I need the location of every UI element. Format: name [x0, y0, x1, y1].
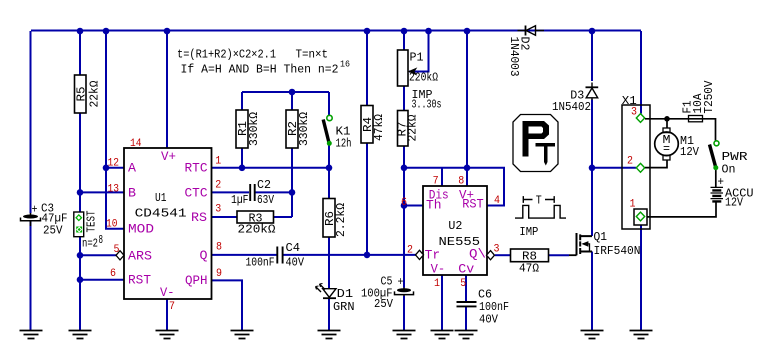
svg-text:=: =	[663, 142, 670, 156]
wire ARS branch	[80, 254, 117, 256]
wire C5 to ground	[403, 296, 405, 331]
switch K1	[323, 115, 332, 146]
node rail-wiper	[425, 28, 432, 35]
svg-text:12: 12	[108, 158, 120, 170]
svg-text:If A=H AND B=H Then n=2: If A=H AND B=H Then n=2	[181, 63, 339, 77]
svg-text:1N5402: 1N5402	[552, 100, 591, 114]
capacitor C4	[277, 247, 282, 264]
wire battery to X1 pin1	[647, 202, 716, 217]
wire RS row right of R3	[274, 216, 293, 218]
node rail-P1	[401, 28, 408, 35]
fuse F1	[689, 116, 703, 122]
svg-text:T=n×t: T=n×t	[296, 48, 329, 62]
svg-text:MOD: MOD	[128, 223, 154, 237]
wire rail to X1 pin3	[640, 31, 642, 114]
pin diamond Q-bar	[487, 251, 495, 260]
wire R4 bottom to Q row	[366, 143, 368, 255]
node ARS	[77, 252, 84, 259]
svg-text:22kΩ: 22kΩ	[406, 115, 420, 142]
wire C3 to ground	[30, 221, 32, 331]
ground Q1 source	[581, 331, 604, 339]
svg-text:2: 2	[407, 245, 413, 257]
svg-text:RST: RST	[462, 198, 484, 212]
svg-text:CTC: CTC	[185, 187, 208, 201]
wire QPH to ground	[212, 280, 243, 331]
svg-text:T250V: T250V	[702, 80, 716, 114]
wire R4 column top	[366, 31, 368, 106]
node rail-U1V+	[164, 28, 171, 35]
svg-text:12V: 12V	[725, 196, 744, 210]
node rail-R4	[364, 28, 371, 35]
svg-text:T: T	[536, 194, 542, 208]
svg-text:1N4003: 1N4003	[507, 37, 521, 77]
svg-text:1: 1	[215, 156, 221, 168]
wire K1 bottom lead	[328, 146, 330, 168]
node rail-A	[103, 28, 110, 35]
resistor R8	[511, 249, 549, 262]
wire R7 bottom to C5	[403, 146, 405, 288]
svg-text:8: 8	[458, 176, 464, 188]
node RST	[77, 276, 84, 283]
ground D1	[318, 331, 341, 339]
wire D3 column top	[591, 31, 593, 81]
svg-text:t=(R1+R2)×C2×2.1: t=(R1+R2)×C2×2.1	[177, 48, 276, 62]
svg-text:Cv: Cv	[458, 262, 475, 276]
svg-text:5: 5	[460, 278, 466, 290]
node R1R2K1 top	[289, 89, 296, 96]
ground U2 V-	[431, 331, 454, 339]
wire K1 top lead	[328, 92, 330, 115]
svg-text:7: 7	[169, 301, 175, 313]
svg-text:1µF: 1µF	[231, 193, 249, 207]
svg-text:C4: C4	[286, 241, 301, 255]
svg-text:n=2: n=2	[82, 237, 98, 251]
svg-text:RST: RST	[128, 274, 151, 288]
node rail-555V+	[464, 28, 471, 35]
node trigger	[364, 252, 371, 259]
node rail-D3	[589, 28, 596, 35]
svg-text:Th: Th	[426, 198, 442, 212]
P1 wiper arrow	[409, 69, 416, 75]
wire U1 pin14 V+ column	[166, 31, 168, 148]
wire Dis/V+/RST row	[404, 168, 504, 206]
resistor R5	[75, 75, 87, 113]
svg-text:RTC: RTC	[185, 162, 208, 176]
wire C6 to ground	[465, 307, 467, 331]
wire X1 pin1 to ground	[640, 225, 642, 331]
svg-text:16: 16	[340, 60, 350, 70]
wire Dis pin stub	[441, 168, 443, 186]
resistor R6	[323, 199, 335, 238]
wire X1 pin3 to F1	[645, 118, 688, 120]
node RTC-K1	[326, 165, 333, 172]
connector X1 box	[622, 105, 650, 229]
svg-text:22kΩ: 22kΩ	[88, 81, 102, 108]
diode D1 LED GRN	[316, 284, 337, 299]
svg-text:U1: U1	[155, 191, 167, 205]
svg-text:8: 8	[99, 233, 104, 247]
wire R6 top lead	[328, 168, 330, 199]
capacitor C6	[457, 302, 477, 306]
node 555V+	[464, 165, 471, 172]
wire Q1 drain column	[591, 168, 593, 236]
resistor R3	[237, 211, 274, 223]
IC U2 NE555 box	[423, 186, 487, 275]
svg-text:C2: C2	[257, 178, 271, 192]
node M1 tap	[664, 116, 670, 122]
node drain-X1pin2	[589, 165, 596, 172]
wire P1 wiper riser	[409, 31, 429, 72]
jumper TEST	[74, 212, 84, 237]
svg-text:B: B	[128, 187, 137, 201]
wire R6 bottom to D1	[328, 237, 330, 288]
svg-text:Q1: Q1	[594, 230, 608, 244]
svg-text:5: 5	[114, 244, 120, 256]
wire motor M1 top lead	[666, 119, 668, 128]
svg-text:2: 2	[627, 155, 633, 167]
ground X1 pin1	[630, 331, 653, 339]
svg-text:+: +	[718, 175, 725, 189]
svg-text:47kΩ: 47kΩ	[372, 114, 386, 141]
svg-text:7: 7	[433, 176, 439, 188]
wire D3 to X1 pin2 node	[591, 100, 593, 168]
svg-text:+: +	[398, 275, 404, 289]
svg-text:IRF540N: IRF540N	[594, 244, 641, 258]
svg-text:8: 8	[216, 242, 222, 254]
svg-text:Q: Q	[200, 249, 208, 263]
node Dis	[401, 165, 408, 172]
svg-text:TEST: TEST	[85, 211, 99, 233]
wire R8 to Q1 gate	[549, 254, 570, 256]
MOTOR CIRCUIT (black wires right of X1)	[645, 119, 716, 217]
wire motor M1 bottom lead	[645, 160, 667, 168]
wire R5 column top	[79, 31, 81, 75]
wire Q row C4 to Tr	[283, 254, 416, 256]
svg-text:330kΩ: 330kΩ	[247, 112, 261, 146]
svg-text:ARS: ARS	[128, 250, 152, 264]
svg-text:V-: V-	[431, 262, 446, 276]
resistor R4	[361, 106, 373, 144]
wire R2 top lead	[291, 92, 293, 110]
svg-text:330kΩ: 330kΩ	[297, 112, 311, 146]
switch PWR	[710, 141, 720, 170]
svg-text:2.2kΩ: 2.2kΩ	[334, 203, 348, 237]
svg-text:QPH: QPH	[185, 274, 208, 288]
resistor R1	[236, 110, 248, 148]
svg-text:63V: 63V	[257, 193, 275, 207]
X1 pin 2	[636, 163, 644, 172]
svg-text:V+: V+	[161, 150, 176, 164]
wire left rail down to C3	[30, 31, 32, 213]
node A	[103, 165, 110, 172]
wire top V+ rail	[31, 30, 641, 32]
wire PWR to battery	[715, 170, 717, 187]
ground TEST column	[69, 331, 92, 339]
pin diamond Tr	[416, 250, 424, 259]
svg-text:220kΩ: 220kΩ	[409, 71, 438, 85]
wire R1 top lead	[241, 92, 243, 110]
wire R2 bottom lead to CTC node	[291, 148, 293, 217]
svg-text:V-: V-	[160, 286, 175, 300]
svg-text:+: +	[32, 203, 38, 217]
IC U1 CD4541 box	[124, 148, 212, 299]
wire 555 V+ column	[466, 31, 468, 186]
svg-text:U2: U2	[448, 219, 462, 233]
X1 pin 1	[636, 212, 644, 221]
svg-text:9: 9	[216, 268, 222, 280]
battery ACCU	[711, 187, 724, 201]
ground C5	[393, 331, 416, 339]
svg-text:47Ω: 47Ω	[519, 262, 539, 276]
svg-text:GRN: GRN	[333, 300, 355, 314]
wire P1 to R7	[403, 86, 405, 111]
potentiometer P1	[398, 50, 409, 86]
node rail-R5	[77, 28, 84, 35]
pulse diagram IMP	[515, 196, 566, 218]
svg-text:12V: 12V	[680, 145, 700, 159]
wire A/MOD column	[106, 31, 124, 229]
wire RST branch	[80, 279, 124, 281]
svg-text:100nF: 100nF	[246, 256, 275, 270]
wire Q-bar to R8	[495, 254, 511, 256]
wire R1 bottom lead	[241, 148, 243, 168]
ground left rail	[20, 331, 43, 339]
svg-text:1: 1	[630, 198, 636, 210]
svg-text:2: 2	[215, 179, 221, 191]
svg-text:13: 13	[108, 184, 120, 196]
svg-text:3: 3	[631, 107, 637, 119]
wire Q1 source to ground	[591, 252, 593, 332]
svg-text:10: 10	[106, 219, 118, 231]
wire A branch	[106, 167, 124, 169]
svg-text:40V: 40V	[286, 256, 305, 270]
svg-text:R5: R5	[75, 87, 89, 102]
resistor R7	[398, 111, 409, 147]
wire R1-R2-K1 top connector	[242, 91, 329, 93]
svg-text:6: 6	[401, 197, 407, 209]
svg-text:3: 3	[494, 244, 500, 256]
wire X1 pin2 branch	[592, 167, 636, 169]
wire R5 bottom to TEST jumper	[79, 113, 81, 213]
svg-text:14: 14	[130, 138, 142, 150]
ground U1 V-	[156, 331, 179, 339]
svg-text:25V: 25V	[374, 297, 394, 311]
capacitor C3 (electrolytic)	[21, 213, 41, 226]
svg-text:40V: 40V	[479, 313, 499, 327]
diode D2 1N4003	[518, 26, 545, 36]
wire F1 to PWR switch	[688, 119, 716, 141]
X1 pin 3	[636, 114, 644, 123]
svg-text:CD4541: CD4541	[135, 207, 187, 221]
pin diamond ARS	[116, 251, 124, 260]
svg-text:6: 6	[110, 268, 116, 280]
wire node B branch	[80, 191, 124, 193]
wire U1 pin7 V- to ground	[166, 299, 168, 331]
wire TEST jumper to ground	[79, 235, 81, 332]
wire Cv to C6	[465, 275, 467, 302]
wire RTC row	[212, 167, 330, 169]
capacitor C2	[250, 184, 255, 201]
svg-text:P1: P1	[410, 51, 424, 65]
svg-text:4: 4	[494, 195, 500, 207]
capacitor C5 (electrolytic)	[395, 288, 414, 297]
transistor Q1 IRF540N	[569, 233, 592, 255]
ground QPH	[231, 331, 254, 339]
node CTC	[289, 189, 296, 196]
svg-text:3: 3	[215, 204, 221, 216]
svg-text:Q\: Q\	[469, 248, 486, 262]
node Th	[401, 202, 408, 209]
diode D3 1N5402	[586, 83, 599, 101]
wire P1 top lead	[403, 31, 405, 50]
wire 555 V- to ground	[441, 275, 443, 331]
svg-text:A: A	[128, 162, 137, 176]
wire Q row left of C4	[212, 254, 277, 256]
wire CTC row right of C2	[256, 191, 293, 193]
node B	[77, 189, 84, 196]
svg-text:3..30s: 3..30s	[412, 98, 442, 112]
svg-text:12h: 12h	[336, 137, 352, 151]
node RTC-R1	[239, 165, 246, 172]
resistor R2	[286, 110, 298, 148]
svg-text:RS: RS	[191, 211, 207, 225]
svg-text:Tr: Tr	[425, 249, 441, 263]
connector X1 pin1 box	[634, 209, 647, 225]
motor M1	[655, 128, 679, 160]
svg-text:25V: 25V	[43, 224, 63, 238]
svg-text:D1: D1	[337, 287, 354, 301]
wire D1 to ground	[328, 298, 330, 331]
svg-text:220kΩ: 220kΩ	[238, 223, 276, 237]
svg-text:1: 1	[434, 278, 440, 290]
wire CTC row left	[212, 191, 250, 193]
wire RS row left	[212, 216, 238, 218]
wire Th branch	[404, 205, 423, 207]
svg-text:IMP: IMP	[519, 225, 538, 239]
ground C6	[455, 331, 478, 339]
PT logo	[513, 115, 558, 172]
